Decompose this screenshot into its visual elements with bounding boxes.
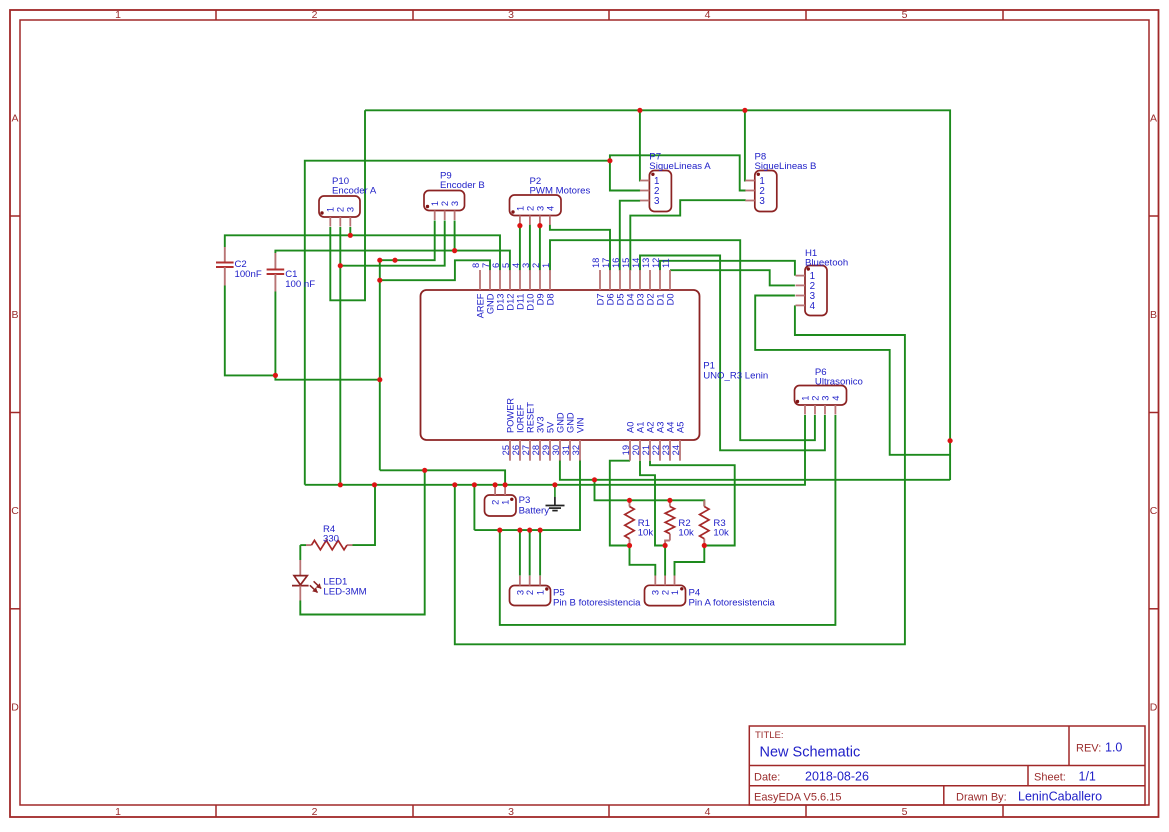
svg-text:32: 32 <box>571 445 581 455</box>
svg-text:100nF: 100nF <box>235 269 262 280</box>
svg-text:27: 27 <box>521 445 531 455</box>
svg-text:3: 3 <box>535 206 545 211</box>
svg-text:Pin A fotoresistencia: Pin A fotoresistencia <box>689 598 776 609</box>
svg-text:AREF: AREF <box>475 293 485 318</box>
svg-text:Battery: Battery <box>519 505 550 516</box>
svg-text:A5: A5 <box>675 422 685 433</box>
svg-text:3: 3 <box>346 207 356 212</box>
svg-text:D3: D3 <box>635 294 645 306</box>
svg-text:1.0: 1.0 <box>1105 741 1122 755</box>
svg-text:3: 3 <box>508 806 514 818</box>
svg-text:D13: D13 <box>495 294 505 311</box>
svg-text:D12: D12 <box>505 294 515 311</box>
svg-text:3: 3 <box>508 9 514 21</box>
svg-text:LeninCaballero: LeninCaballero <box>1018 790 1102 804</box>
svg-text:25: 25 <box>501 445 511 455</box>
svg-text:A0: A0 <box>625 422 635 433</box>
svg-text:21: 21 <box>641 445 651 455</box>
svg-text:13: 13 <box>641 258 651 268</box>
svg-text:D4: D4 <box>625 294 635 306</box>
svg-text:A: A <box>11 113 18 125</box>
svg-text:3: 3 <box>450 201 460 206</box>
svg-text:2: 2 <box>531 263 541 268</box>
svg-text:19: 19 <box>621 445 631 455</box>
svg-text:10k: 10k <box>713 528 729 539</box>
svg-text:GND: GND <box>565 412 575 433</box>
svg-text:4: 4 <box>810 301 816 312</box>
svg-text:C: C <box>11 505 19 517</box>
svg-text:B: B <box>11 309 18 321</box>
svg-text:100 nF: 100 nF <box>285 279 315 290</box>
svg-text:POWER: POWER <box>505 398 515 433</box>
svg-text:16: 16 <box>611 258 621 268</box>
svg-text:REV:: REV: <box>1076 743 1101 755</box>
svg-text:RESET: RESET <box>525 402 535 433</box>
svg-text:B: B <box>1150 309 1157 321</box>
svg-text:D2: D2 <box>645 294 655 306</box>
svg-text:10k: 10k <box>638 528 654 539</box>
svg-text:23: 23 <box>661 445 671 455</box>
svg-text:GND: GND <box>555 412 565 433</box>
svg-text:SigueLineas A: SigueLineas A <box>649 161 711 172</box>
svg-text:1: 1 <box>541 263 551 268</box>
svg-text:VIN: VIN <box>575 418 585 434</box>
svg-text:D0: D0 <box>665 294 675 306</box>
svg-text:TITLE:: TITLE: <box>755 730 784 741</box>
svg-text:330: 330 <box>323 533 339 544</box>
svg-text:1: 1 <box>501 500 511 505</box>
svg-text:1: 1 <box>800 396 810 401</box>
svg-text:1: 1 <box>115 806 121 818</box>
svg-text:4: 4 <box>705 806 711 818</box>
svg-text:1: 1 <box>515 206 525 211</box>
svg-text:3: 3 <box>820 396 830 401</box>
svg-text:3V3: 3V3 <box>535 416 545 433</box>
svg-text:1: 1 <box>326 207 336 212</box>
svg-text:28: 28 <box>531 445 541 455</box>
svg-text:17: 17 <box>601 258 611 268</box>
svg-text:6: 6 <box>491 263 501 268</box>
svg-text:5V: 5V <box>545 421 555 433</box>
svg-text:29: 29 <box>541 445 551 455</box>
svg-text:2: 2 <box>336 207 346 212</box>
svg-text:D5: D5 <box>615 294 625 306</box>
svg-text:18: 18 <box>591 258 601 268</box>
svg-text:New Schematic: New Schematic <box>760 745 861 761</box>
svg-text:GND: GND <box>485 293 495 314</box>
svg-text:2: 2 <box>440 201 450 206</box>
svg-text:4: 4 <box>511 263 521 268</box>
svg-text:1: 1 <box>536 590 546 595</box>
svg-text:LED-3MM: LED-3MM <box>323 587 366 598</box>
svg-text:2018-08-26: 2018-08-26 <box>805 770 869 784</box>
svg-text:1/1: 1/1 <box>1079 770 1096 784</box>
svg-text:5: 5 <box>902 9 908 21</box>
svg-text:2: 2 <box>525 206 535 211</box>
svg-text:Sheet:: Sheet: <box>1034 772 1066 784</box>
svg-text:A4: A4 <box>665 422 675 433</box>
svg-text:15: 15 <box>621 258 631 268</box>
svg-text:11: 11 <box>661 258 671 268</box>
svg-text:7: 7 <box>481 263 491 268</box>
svg-text:D7: D7 <box>595 294 605 306</box>
svg-text:2: 2 <box>312 9 318 21</box>
svg-text:30: 30 <box>551 445 561 455</box>
svg-text:12: 12 <box>651 258 661 268</box>
svg-text:IOREF: IOREF <box>515 404 525 433</box>
svg-text:1: 1 <box>670 590 680 595</box>
svg-text:3: 3 <box>521 263 531 268</box>
svg-text:4: 4 <box>545 206 555 211</box>
svg-text:D: D <box>11 702 19 714</box>
svg-text:4: 4 <box>831 396 841 401</box>
svg-text:2: 2 <box>525 590 535 595</box>
svg-text:Encoder A: Encoder A <box>332 186 377 197</box>
svg-text:Date:: Date: <box>754 772 780 784</box>
svg-text:C: C <box>1150 505 1158 517</box>
svg-text:D6: D6 <box>605 294 615 306</box>
svg-text:14: 14 <box>631 258 641 268</box>
svg-text:A2: A2 <box>645 422 655 433</box>
svg-text:5: 5 <box>501 263 511 268</box>
svg-text:5: 5 <box>902 806 908 818</box>
svg-text:Blueetooh: Blueetooh <box>805 258 848 269</box>
svg-text:UNO_R3 Lenin: UNO_R3 Lenin <box>703 371 768 382</box>
svg-text:20: 20 <box>631 445 641 455</box>
svg-text:22: 22 <box>651 445 661 455</box>
svg-text:3: 3 <box>651 590 661 595</box>
svg-text:3: 3 <box>654 196 660 207</box>
svg-text:D: D <box>1150 702 1158 714</box>
svg-text:2: 2 <box>312 806 318 818</box>
svg-text:A1: A1 <box>635 422 645 433</box>
svg-text:D10: D10 <box>525 294 535 311</box>
svg-text:26: 26 <box>511 445 521 455</box>
svg-text:2: 2 <box>810 396 820 401</box>
svg-text:D11: D11 <box>515 294 525 310</box>
svg-text:1: 1 <box>115 9 121 21</box>
svg-text:3: 3 <box>759 196 765 207</box>
svg-text:EasyEDA V5.6.15: EasyEDA V5.6.15 <box>754 792 841 804</box>
svg-text:D1: D1 <box>655 294 665 306</box>
svg-text:D8: D8 <box>545 294 555 306</box>
svg-text:A: A <box>1150 113 1157 125</box>
svg-text:4: 4 <box>705 9 711 21</box>
svg-text:SigueLineas B: SigueLineas B <box>755 161 817 172</box>
svg-text:Drawn By:: Drawn By: <box>956 792 1007 804</box>
svg-text:2: 2 <box>491 500 501 505</box>
svg-text:8: 8 <box>471 263 481 268</box>
svg-text:1: 1 <box>430 201 440 206</box>
svg-text:Encoder B: Encoder B <box>440 180 485 191</box>
svg-text:Ultrasonico: Ultrasonico <box>815 376 863 387</box>
svg-text:10k: 10k <box>678 528 694 539</box>
svg-text:24: 24 <box>671 445 681 455</box>
svg-text:D9: D9 <box>535 294 545 306</box>
svg-text:31: 31 <box>561 445 571 455</box>
svg-text:PWM Motores: PWM Motores <box>530 185 591 196</box>
svg-text:3: 3 <box>515 590 525 595</box>
svg-text:Pin B fotoresistencia: Pin B fotoresistencia <box>553 598 641 609</box>
svg-text:A3: A3 <box>655 422 665 433</box>
